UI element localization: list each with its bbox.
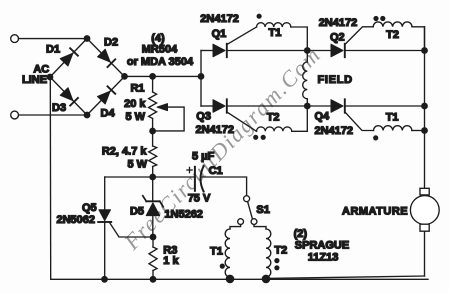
wire C1 to S1 <box>201 177 247 196</box>
svg-text:LINE: LINE <box>22 74 47 86</box>
wire Q4 cathode <box>345 105 425 107</box>
label Q4 <box>315 110 331 122</box>
wire Q3 gate <box>227 112 257 131</box>
wire bridge edge bottom-left <box>50 77 87 115</box>
thyristor Q5 2N5062 <box>98 210 111 279</box>
svg-text:SPRAGUE: SPRAGUE <box>295 240 349 252</box>
node T2 bottom <box>262 275 271 284</box>
wire <box>19 114 88 116</box>
wire S1 to T2 <box>254 225 266 229</box>
node bridge bottom <box>84 112 91 119</box>
svg-text:5 µF: 5 µF <box>192 151 215 163</box>
svg-text:T2: T2 <box>267 111 280 123</box>
svg-text:T1: T1 <box>210 245 223 257</box>
label 2N5062 <box>56 214 95 226</box>
wire bridge edge top-left <box>50 39 87 78</box>
svg-text:(2): (2) <box>294 228 308 240</box>
node bridge right <box>121 73 128 80</box>
svg-text:T2: T2 <box>386 29 399 41</box>
wire Q5 anode drop <box>104 177 106 210</box>
winding T1 primary <box>225 229 230 279</box>
polarity dot T1 <box>257 14 262 19</box>
resistor R3 1k <box>149 237 157 279</box>
wire bridge edge bottom-right <box>87 77 125 116</box>
wire SCR anode bus <box>200 51 202 107</box>
diode D2 <box>98 49 116 67</box>
svg-text:R2, 4.7 k: R2, 4.7 k <box>102 145 148 157</box>
wire Q3 anode <box>201 105 213 107</box>
node R1 top <box>149 73 156 80</box>
wiper arrow of R1 <box>153 104 184 131</box>
label D4 <box>101 107 116 119</box>
wire Q2 gate <box>345 27 373 45</box>
label + polarity <box>187 167 192 172</box>
polarity dot T1 <box>220 264 225 269</box>
label T2 <box>386 29 399 41</box>
svg-text:R1: R1 <box>130 83 144 95</box>
polarity dot T2 c <box>373 16 378 21</box>
wire Q1 cathode <box>227 50 307 52</box>
wire Q1 anode <box>201 50 213 52</box>
label T1 <box>386 111 399 123</box>
svg-text:20 k: 20 k <box>124 98 146 110</box>
terminal AC line bottom <box>11 111 19 119</box>
label T2 <box>274 245 287 257</box>
label 1N5262 <box>164 209 203 221</box>
wire D5 cathode <box>152 177 154 201</box>
label Q2 <box>330 32 345 44</box>
wire Q5 gate <box>110 223 153 237</box>
label D5 <box>130 206 144 218</box>
wire left bus <box>49 77 51 279</box>
label 5 uF <box>192 151 215 163</box>
svg-text:D4: D4 <box>101 107 116 119</box>
node D5-R3-gate <box>150 234 157 241</box>
node R3 rail <box>150 276 157 283</box>
label D1 <box>46 43 60 55</box>
watermark FreeCircuitDiagram.Com <box>119 42 326 255</box>
label T1 <box>210 245 223 257</box>
svg-text:D2: D2 <box>104 37 118 49</box>
wire Q3 cathode <box>227 105 307 107</box>
node bridge top <box>84 35 91 42</box>
polarity dot T2 lower <box>274 265 279 270</box>
thyristor Q1 2N4172 <box>213 44 227 57</box>
switch S1 <box>238 196 257 225</box>
label D3 <box>52 102 66 114</box>
polarity dot T2 upper <box>274 258 279 263</box>
node Q5 cathode rail <box>101 276 108 283</box>
svg-text:2N5062: 2N5062 <box>56 214 95 226</box>
svg-text:Q1: Q1 <box>212 28 227 40</box>
wire S1 to T1 <box>230 225 241 229</box>
label Q5 <box>82 202 97 214</box>
diode D3 <box>60 88 78 106</box>
svg-text:T1: T1 <box>386 111 399 123</box>
svg-text:1N5262: 1N5262 <box>164 209 203 221</box>
resistor R2 4.7k <box>149 131 157 177</box>
label Q3 <box>196 111 211 123</box>
node field bottom <box>304 103 311 110</box>
node T1 bottom <box>226 275 235 284</box>
polarity dot T2 d <box>380 16 385 21</box>
node R1 bottom <box>149 128 156 135</box>
polarity dot T1 e <box>373 135 378 140</box>
node field top <box>304 47 311 54</box>
svg-text:5 W: 5 W <box>125 111 145 123</box>
svg-text:2N4172: 2N4172 <box>315 125 354 137</box>
wire Q4 anode <box>307 105 331 107</box>
node right bus Q4 <box>421 103 428 110</box>
thyristor Q4 2N4172 <box>331 99 345 112</box>
label ARMATURE <box>342 205 408 217</box>
wire Q2 cathode <box>345 50 425 52</box>
svg-text:75 V: 75 V <box>188 192 211 204</box>
label S1 <box>256 204 269 216</box>
svg-text:11Z13: 11Z13 <box>308 251 339 263</box>
svg-text:or MDA 3504: or MDA 3504 <box>127 56 194 68</box>
svg-text:2N4172: 2N4172 <box>196 124 235 136</box>
polarity dot T2 a <box>253 135 258 140</box>
svg-text:ARMATURE: ARMATURE <box>342 205 408 217</box>
wire node line <box>105 176 195 178</box>
diode D1 <box>60 48 78 66</box>
svg-text:S1: S1 <box>256 204 269 216</box>
label 75 V <box>188 192 211 204</box>
terminal AC line top <box>11 35 19 43</box>
svg-text:FIELD: FIELD <box>318 74 353 86</box>
node bridge left <box>47 74 54 81</box>
label FIELD <box>318 74 353 86</box>
winding T1 Q1 gate <box>257 23 308 51</box>
winding T1 Q4 gate <box>374 126 425 131</box>
label 5 W <box>127 159 147 171</box>
winding T2 primary <box>266 229 271 279</box>
node right bus T1 <box>421 127 428 134</box>
svg-text:5 W: 5 W <box>127 159 147 171</box>
label (2) SPRAGUE 11Z13 <box>294 228 350 263</box>
label 2N4172 <box>315 125 354 137</box>
wire bottom rail <box>51 278 428 280</box>
label C1 <box>209 165 223 177</box>
svg-text:Q3: Q3 <box>196 111 211 123</box>
capacitor C1 5uF <box>195 166 204 191</box>
zener diode D5 1N5262 <box>143 196 163 237</box>
wire <box>19 38 88 40</box>
node SCR anode bus feed <box>198 73 205 80</box>
winding T2 Q3 gate <box>257 106 308 131</box>
label 5 W <box>125 111 145 123</box>
node right bus Q2 <box>421 47 428 54</box>
label T2 <box>267 111 280 123</box>
svg-text:Q4: Q4 <box>315 110 331 122</box>
svg-text:2N4172: 2N4172 <box>200 13 239 25</box>
label D2 <box>104 37 118 49</box>
winding T2 Q2 gate <box>373 22 424 51</box>
svg-text:2N4172: 2N4172 <box>319 17 358 29</box>
label 20 k <box>124 98 146 110</box>
svg-text:T1: T1 <box>269 27 282 39</box>
svg-text:Q2: Q2 <box>330 32 345 44</box>
label R3 <box>163 244 177 256</box>
node R2-C1-D5 <box>149 174 156 181</box>
label T1 <box>269 27 282 39</box>
label 2N4172 <box>196 124 235 136</box>
wire bridge edge top-right <box>87 39 125 77</box>
wire armature bottom <box>424 231 426 276</box>
svg-text:D1: D1 <box>46 43 60 55</box>
wire Q1 gate <box>227 27 257 44</box>
svg-text:T2: T2 <box>274 245 287 257</box>
wire DC positive feed <box>125 75 202 77</box>
thyristor Q3 2N4172 <box>213 99 227 112</box>
svg-text:Q5: Q5 <box>82 202 97 214</box>
svg-text:D5: D5 <box>130 206 144 218</box>
svg-text:1 k: 1 k <box>163 255 179 267</box>
thyristor Q2 2N4172 <box>331 44 345 57</box>
motor ARMATURE <box>410 188 439 231</box>
resistor R1 20k <box>149 76 157 131</box>
wire right bus <box>424 27 426 189</box>
label 2N4172 <box>319 17 358 29</box>
svg-text:C1: C1 <box>209 165 223 177</box>
label AC LINE <box>22 64 49 86</box>
wire armature return <box>266 276 425 278</box>
label 2N4172 <box>200 13 239 25</box>
winding FIELD <box>303 51 308 107</box>
polarity dot T2 b <box>261 135 266 140</box>
wire Q2 anode <box>307 50 331 52</box>
svg-text:D3: D3 <box>52 102 66 114</box>
diode D4 <box>98 86 116 104</box>
label 1 k <box>163 255 179 267</box>
label (4) MR504 or MDA 3504 <box>127 33 194 69</box>
svg-text:MR504: MR504 <box>142 44 178 56</box>
label R1 <box>130 83 144 95</box>
label R2, 4.7 k <box>102 145 148 157</box>
wire Q4 gate <box>345 112 374 130</box>
label Q1 <box>212 28 227 40</box>
